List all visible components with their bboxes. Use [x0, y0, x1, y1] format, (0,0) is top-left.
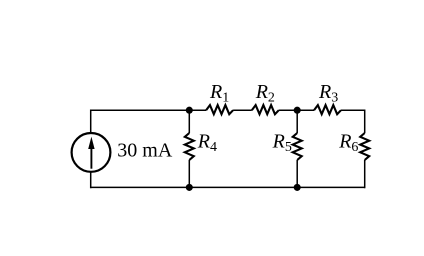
- svg-text:30 mA: 30 mA: [117, 140, 173, 162]
